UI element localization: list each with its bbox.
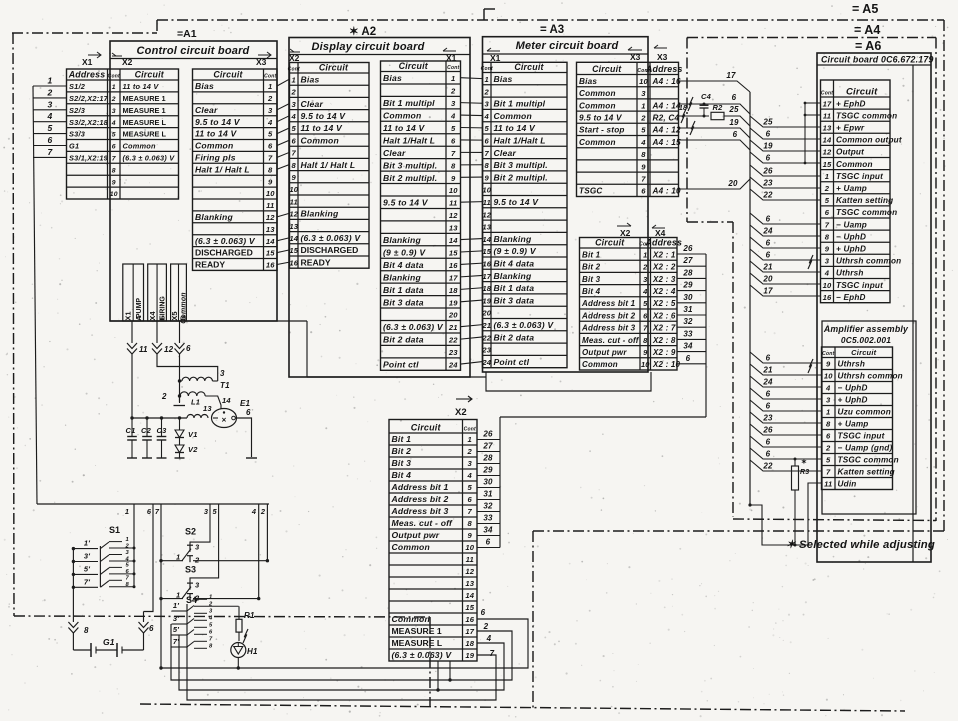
- svg-text:R3: R3: [800, 469, 809, 476]
- svg-text:5: 5: [451, 124, 456, 133]
- svg-text:18: 18: [465, 639, 474, 648]
- svg-text:6: 6: [643, 311, 648, 320]
- wire 6 (A4:14): [679, 93, 751, 114]
- svg-text:8: 8: [485, 161, 490, 170]
- svg-text:7: 7: [268, 154, 273, 163]
- svg-text:Output pwr: Output pwr: [582, 348, 627, 357]
- svg-text:17: 17: [823, 99, 832, 108]
- svg-text:4: 4: [450, 112, 456, 121]
- svg-text:2: 2: [260, 507, 266, 516]
- control board title: [137, 45, 250, 57]
- svg-text:1: 1: [641, 101, 645, 110]
- connector X1 label: [82, 52, 101, 67]
- svg-text:9: 9: [292, 173, 297, 182]
- cable loop below meter board: [486, 372, 651, 391]
- svg-text:6: 6: [733, 130, 738, 139]
- svg-text:10: 10: [449, 186, 458, 195]
- svg-text:11: 11: [483, 198, 491, 207]
- svg-text:6: 6: [766, 450, 771, 459]
- svg-text:13: 13: [482, 223, 491, 232]
- svg-text:Bit 2: Bit 2: [392, 446, 412, 456]
- svg-text:✶: ✶: [801, 458, 807, 466]
- svg-text:+ Epwr: + Epwr: [836, 124, 865, 133]
- control circuit board A1 outline: [110, 41, 277, 321]
- svg-text:Address bit 3: Address bit 3: [581, 324, 636, 333]
- wire control board bottom bus: [110, 320, 307, 322]
- svg-text:14: 14: [465, 591, 474, 600]
- svg-text:Bit 3 data: Bit 3 data: [383, 297, 424, 307]
- wire 19 (A4:12): [679, 118, 751, 138]
- svg-text:6: 6: [481, 608, 486, 617]
- svg-text:Udin: Udin: [838, 480, 857, 489]
- svg-text:5: 5: [485, 124, 490, 133]
- svg-text:6: 6: [126, 569, 130, 575]
- svg-text:Address: Address: [68, 70, 106, 80]
- svg-text:Uthrsh: Uthrsh: [836, 269, 864, 278]
- svg-text:Circuit: Circuit: [514, 62, 544, 72]
- svg-text:23: 23: [762, 414, 773, 423]
- svg-text:3: 3: [643, 275, 648, 284]
- svg-text:10: 10: [110, 191, 118, 198]
- svg-text:2: 2: [208, 602, 213, 608]
- svg-text:4: 4: [825, 384, 831, 393]
- svg-text:Uthrsh: Uthrsh: [838, 360, 866, 369]
- svg-text:9: 9: [485, 173, 490, 182]
- svg-text:Uthrsh common: Uthrsh common: [836, 257, 901, 266]
- svg-text:Address bit 3: Address bit 3: [391, 506, 449, 516]
- svg-text:X3: X3: [657, 52, 668, 62]
- svg-text:TSGC input: TSGC input: [838, 432, 885, 441]
- svg-text:= A3: = A3: [540, 24, 564, 36]
- display connector X1 label: [443, 48, 457, 63]
- connector X3 label: [256, 52, 271, 67]
- svg-text:34: 34: [683, 342, 693, 351]
- svg-text:FIRING: FIRING: [160, 296, 167, 320]
- svg-text:X2 : 6: X2 : 6: [652, 311, 676, 320]
- svg-text:Circuit: Circuit: [851, 348, 876, 357]
- svg-text:6: 6: [766, 251, 771, 260]
- svg-text:S2: S2: [185, 527, 196, 537]
- svg-text:3: 3: [48, 99, 53, 109]
- svg-text:Bias: Bias: [579, 77, 597, 86]
- svg-text:Common: Common: [301, 135, 339, 145]
- svg-text:1: 1: [485, 75, 489, 84]
- svg-text:7: 7: [112, 156, 117, 163]
- svg-text:S3: S3: [185, 565, 196, 575]
- svg-text:TSGC common: TSGC common: [838, 456, 899, 465]
- amplifier assembly outline: [822, 321, 916, 514]
- svg-text:(6.3 ± 0.063) V: (6.3 ± 0.063) V: [494, 320, 555, 330]
- svg-text:Common: Common: [579, 101, 616, 110]
- connector X2 label (bottom): [455, 396, 472, 418]
- svg-text:3: 3: [641, 89, 646, 98]
- svg-text:Cont: Cont: [264, 74, 276, 80]
- svg-text:5′: 5′: [84, 564, 91, 573]
- svg-text:Cont: Cont: [288, 67, 300, 73]
- circuit board A6 outline: [817, 53, 931, 562]
- svg-text:6: 6: [766, 215, 771, 224]
- winding tap 2 with chassis bar: [161, 392, 185, 406]
- connector X2 label (meter X2/X4 table): [617, 223, 631, 238]
- svg-text:Output: Output: [836, 148, 864, 157]
- inner dash-dot frame bottom right: [533, 531, 947, 711]
- svg-text:27: 27: [482, 441, 493, 450]
- svg-text:= A6: = A6: [855, 39, 881, 53]
- svg-text:9.5 to 14 V: 9.5 to 14 V: [195, 117, 241, 127]
- svg-text:0C5.002.001: 0C5.002.001: [841, 335, 891, 345]
- svg-text:21: 21: [762, 263, 773, 272]
- cable chevron 12: [152, 321, 218, 381]
- svg-text:Blanking: Blanking: [494, 234, 532, 244]
- svg-text:22: 22: [448, 336, 458, 345]
- svg-text:19: 19: [482, 296, 491, 305]
- svg-text:12: 12: [465, 567, 474, 576]
- display circuit board A2 outline: [289, 38, 470, 378]
- svg-text:Bit 4: Bit 4: [582, 287, 601, 296]
- svg-text:Display circuit board: Display circuit board: [311, 41, 424, 53]
- svg-text:6: 6: [48, 135, 53, 145]
- svg-text:2: 2: [125, 543, 130, 549]
- svg-text:2: 2: [483, 622, 489, 631]
- svg-text:15: 15: [482, 247, 491, 256]
- svg-text:T1: T1: [220, 381, 230, 390]
- svg-text:Common: Common: [836, 160, 873, 169]
- svg-text:=A1: =A1: [177, 28, 197, 40]
- svg-text:11 to 14 V: 11 to 14 V: [195, 129, 238, 139]
- svg-text:MEASURE 1: MEASURE 1: [392, 626, 442, 636]
- svg-text:R2, C4: R2, C4: [653, 114, 680, 123]
- svg-text:10: 10: [482, 186, 491, 195]
- svg-text:MEASURE 1: MEASURE 1: [123, 94, 166, 103]
- svg-text:X2: X2: [122, 57, 133, 67]
- svg-text:11 to 14 V: 11 to 14 V: [123, 82, 160, 91]
- svg-text:13: 13: [266, 225, 275, 234]
- svg-text:(6.3 ± 0.063) V: (6.3 ± 0.063) V: [301, 233, 362, 243]
- svg-text:8: 8: [643, 336, 648, 345]
- svg-text:X2 : 8: X2 : 8: [652, 336, 676, 345]
- svg-text:16: 16: [465, 615, 474, 624]
- meter circuit board A3 outline: [483, 37, 649, 372]
- svg-text:5: 5: [268, 130, 273, 139]
- wire riser 4: [257, 504, 260, 600]
- svg-text:22: 22: [481, 333, 491, 342]
- svg-text:4: 4: [208, 616, 213, 622]
- svg-text:S2/2,X2:17: S2/2,X2:17: [69, 94, 109, 103]
- svg-text:Bit 3: Bit 3: [582, 275, 601, 284]
- svg-text:7: 7: [643, 324, 648, 333]
- svg-text:Bit 3 data: Bit 3 data: [494, 295, 535, 305]
- cable chevron 8: [68, 587, 89, 650]
- svg-text:3: 3: [209, 609, 213, 615]
- svg-text:12: 12: [482, 210, 491, 219]
- svg-text:6: 6: [147, 507, 152, 516]
- svg-text:26: 26: [762, 426, 773, 435]
- control board X1/X2 connector table: [67, 69, 179, 199]
- cable bus 26-34,6 to A6 area: [477, 417, 706, 548]
- svg-text:30: 30: [483, 477, 493, 486]
- svg-text:1: 1: [125, 507, 129, 516]
- svg-text:3: 3: [204, 507, 209, 516]
- svg-text:11: 11: [824, 480, 832, 489]
- svg-text:TSGC: TSGC: [579, 187, 603, 196]
- svg-text:2: 2: [267, 94, 273, 103]
- svg-text:X2: X2: [455, 407, 467, 418]
- svg-text:15: 15: [289, 246, 298, 255]
- svg-text:12: 12: [266, 213, 275, 222]
- svg-text:Bit 4: Bit 4: [392, 470, 412, 480]
- svg-text:3: 3: [468, 459, 473, 468]
- display board X2 connector table: [288, 63, 369, 269]
- svg-text:S2/3: S2/3: [69, 106, 86, 115]
- svg-text:33: 33: [483, 513, 493, 522]
- svg-text:(6.3 ± 0.063) V: (6.3 ± 0.063) V: [383, 322, 444, 332]
- A6 connector table: [821, 80, 902, 303]
- svg-text:6: 6: [486, 537, 491, 546]
- svg-text:17: 17: [465, 627, 474, 636]
- svg-text:3: 3: [268, 106, 273, 115]
- connector X4 (B FIRING): [148, 264, 167, 321]
- svg-text:Bit 1 data: Bit 1 data: [383, 285, 424, 295]
- svg-text:Clear: Clear: [195, 105, 218, 115]
- svg-text:33: 33: [683, 329, 693, 338]
- svg-text:15: 15: [823, 160, 832, 169]
- svg-text:Bias: Bias: [494, 74, 513, 84]
- svg-text:6: 6: [112, 144, 116, 151]
- svg-text:X4: X4: [148, 311, 157, 321]
- capacitor C3: [157, 418, 168, 458]
- svg-text:18: 18: [482, 284, 491, 293]
- svg-text:X2 : 7: X2 : 7: [652, 324, 676, 333]
- connector X5 (B Common): [170, 264, 187, 324]
- svg-text:Meas. cut - off: Meas. cut - off: [582, 336, 640, 345]
- svg-text:1: 1: [292, 75, 296, 84]
- svg-text:Control circuit board: Control circuit board: [137, 45, 250, 57]
- wire riser 7: [159, 504, 162, 670]
- svg-text:13: 13: [203, 404, 212, 413]
- svg-text:4: 4: [642, 287, 647, 296]
- X1 harness stubs 1-7 and bus wire: [33, 76, 67, 505]
- svg-text:8: 8: [84, 626, 89, 635]
- svg-text:X2: X2: [620, 228, 631, 238]
- svg-text:Bit 2: Bit 2: [582, 263, 601, 272]
- svg-text:Bit 2 multipl.: Bit 2 multipl.: [383, 173, 437, 183]
- svg-text:24: 24: [481, 358, 491, 367]
- svg-text:7: 7: [155, 507, 160, 516]
- connector X4 label (meter X2/X4 table): [652, 225, 666, 238]
- svg-text:6: 6: [766, 354, 771, 363]
- wire E1 pin 6: [236, 418, 258, 458]
- svg-text:Circuit: Circuit: [319, 63, 349, 73]
- svg-text:10: 10: [641, 360, 650, 369]
- svg-text:Halt 1/Halt L: Halt 1/Halt L: [494, 136, 546, 146]
- external connector X3 label: [654, 45, 668, 62]
- svg-text:15: 15: [266, 249, 275, 258]
- svg-text:9.5 to 14 V: 9.5 to 14 V: [494, 197, 540, 207]
- svg-text:E1: E1: [240, 399, 251, 408]
- svg-text:3′: 3′: [84, 552, 91, 561]
- svg-text:MEASURE L: MEASURE L: [123, 130, 167, 139]
- svg-text:A4 : 15: A4 : 15: [652, 138, 681, 147]
- svg-text:4: 4: [125, 556, 130, 562]
- cable chevron 6 (battery): [139, 504, 155, 650]
- svg-text:Bias: Bias: [301, 74, 320, 84]
- svg-text:X2 : 5: X2 : 5: [652, 299, 676, 308]
- svg-text:4: 4: [47, 111, 53, 121]
- svg-text:5: 5: [48, 123, 53, 133]
- transformer T1: [178, 369, 230, 390]
- svg-text:8: 8: [292, 161, 297, 170]
- svg-text:10: 10: [266, 189, 275, 198]
- svg-text:9.5 to 14 V: 9.5 to 14 V: [579, 114, 623, 123]
- svg-text:4: 4: [486, 634, 492, 643]
- svg-text:19: 19: [449, 298, 458, 307]
- svg-text:5: 5: [825, 196, 830, 205]
- svg-text:Bit 2 multipl.: Bit 2 multipl.: [494, 172, 548, 182]
- svg-text:− Uamp: − Uamp: [836, 220, 867, 229]
- svg-text:5: 5: [126, 563, 130, 569]
- svg-text:23: 23: [448, 348, 458, 357]
- svg-text:H1: H1: [247, 647, 258, 656]
- wire 20 (A4:10): [679, 179, 751, 189]
- svg-text:X2 : 9: X2 : 9: [652, 348, 676, 357]
- svg-text:− UphD: − UphD: [838, 384, 868, 393]
- svg-text:6: 6: [209, 630, 213, 636]
- svg-text:A4 : 14: A4 : 14: [652, 101, 681, 110]
- svg-text:TSGC input: TSGC input: [836, 281, 883, 290]
- svg-text:Circuit board 0C6.672.179: Circuit board 0C6.672.179: [821, 55, 934, 65]
- wire 6 (A4:15): [679, 130, 751, 150]
- svg-text:X2 : 3: X2 : 3: [652, 275, 676, 284]
- svg-text:2: 2: [450, 87, 456, 96]
- wires from bus to A6 connector: [750, 116, 821, 296]
- svg-text:6: 6: [766, 402, 771, 411]
- wires from bus to amplifier: [750, 352, 822, 471]
- svg-text:MEASURE L: MEASURE L: [123, 118, 167, 127]
- svg-text:− UphD: − UphD: [836, 232, 866, 241]
- svg-text:1′: 1′: [173, 601, 180, 610]
- svg-text:14: 14: [449, 236, 458, 245]
- svg-text:Address bit 2: Address bit 2: [391, 494, 449, 504]
- svg-text:Bit 1 multipl: Bit 1 multipl: [383, 98, 435, 108]
- svg-text:8: 8: [451, 161, 456, 170]
- svg-text:7: 7: [485, 149, 490, 158]
- svg-text:10: 10: [824, 372, 833, 381]
- svg-text:29: 29: [682, 281, 693, 290]
- svg-text:Common: Common: [582, 360, 618, 369]
- svg-text:= A4: = A4: [854, 23, 880, 37]
- svg-text:S1/2: S1/2: [69, 82, 86, 91]
- svg-text:X2 : 2: X2 : 2: [652, 263, 676, 272]
- svg-text:READY: READY: [195, 260, 225, 270]
- svg-text:6: 6: [292, 136, 297, 145]
- svg-text:1: 1: [126, 537, 129, 543]
- svg-text:Cont: Cont: [821, 91, 833, 97]
- svg-text:✶ Selected while adjusting: ✶ Selected while adjusting: [786, 539, 935, 551]
- svg-text:Cont: Cont: [108, 74, 120, 80]
- svg-text:5′: 5′: [173, 625, 180, 634]
- wire riser 2: [266, 504, 269, 562]
- svg-text:8: 8: [268, 165, 273, 174]
- svg-text:2: 2: [824, 184, 830, 193]
- svg-text:11: 11: [466, 555, 474, 564]
- svg-text:Katten setting: Katten setting: [836, 196, 893, 205]
- svg-text:21: 21: [481, 321, 491, 330]
- cable chevron 6: [175, 321, 192, 402]
- switch S2: [161, 504, 267, 565]
- svg-text:Blanking: Blanking: [301, 209, 339, 219]
- svg-text:1′: 1′: [84, 539, 91, 548]
- svg-text:6: 6: [246, 408, 251, 417]
- svg-text:6: 6: [766, 239, 771, 248]
- svg-text:2: 2: [111, 96, 116, 103]
- svg-text:6: 6: [686, 354, 691, 363]
- svg-text:3: 3: [825, 257, 830, 266]
- svg-text:7: 7: [451, 149, 456, 158]
- label =A3: [540, 24, 564, 36]
- svg-text:X2 : 4: X2 : 4: [652, 287, 676, 296]
- svg-text:9: 9: [468, 531, 473, 540]
- svg-text:Output pwr: Output pwr: [392, 530, 440, 540]
- svg-text:9.5 to 14 V: 9.5 to 14 V: [301, 111, 347, 121]
- svg-text:19: 19: [763, 142, 773, 151]
- svg-text:11: 11: [290, 197, 298, 206]
- svg-text:Meas. cut - off: Meas. cut - off: [392, 518, 454, 528]
- svg-text:Bit 1 multipl: Bit 1 multipl: [494, 99, 546, 109]
- svg-text:Bias: Bias: [383, 73, 402, 83]
- svg-text:(9 ± 0.9) V: (9 ± 0.9) V: [383, 247, 426, 257]
- svg-text:19: 19: [465, 651, 474, 660]
- svg-text:21: 21: [762, 366, 773, 375]
- svg-text:L1: L1: [191, 398, 200, 407]
- svg-text:X2: X2: [289, 53, 300, 63]
- svg-text:1: 1: [112, 84, 116, 91]
- svg-text:24: 24: [762, 227, 773, 236]
- svg-text:14: 14: [482, 235, 491, 244]
- svg-text:Common: Common: [383, 111, 421, 121]
- svg-text:5: 5: [643, 299, 648, 308]
- svg-text:5: 5: [212, 507, 217, 516]
- label =A4: [854, 23, 880, 37]
- svg-text:Start - stop: Start - stop: [579, 126, 625, 135]
- svg-text:7: 7: [48, 147, 54, 157]
- svg-text:(9 ± 0.9) V: (9 ± 0.9) V: [494, 246, 537, 256]
- wire bus W (to board A6): [749, 92, 751, 505]
- svg-text:2: 2: [825, 444, 831, 453]
- svg-text:6: 6: [825, 208, 830, 217]
- svg-text:Uthrsh common: Uthrsh common: [838, 372, 903, 381]
- svg-text:TSGC common: TSGC common: [836, 111, 897, 120]
- svg-text:16: 16: [289, 258, 298, 267]
- svg-text:7: 7: [468, 507, 473, 516]
- svg-text:7′: 7′: [173, 637, 180, 646]
- measure wire loop 6/2/4/7: [161, 608, 528, 700]
- svg-text:= A5: = A5: [852, 2, 878, 16]
- svg-text:3: 3: [485, 100, 490, 109]
- meter board X2/X4 connector table: [580, 238, 683, 371]
- svg-text:Bit 1 data: Bit 1 data: [494, 283, 535, 293]
- svg-text:9: 9: [641, 162, 646, 171]
- svg-text:MEASURE 1: MEASURE 1: [123, 106, 166, 115]
- svg-text:8: 8: [209, 644, 213, 650]
- svg-text:7: 7: [825, 220, 830, 229]
- switch S4: [172, 595, 239, 650]
- svg-text:Blanking: Blanking: [195, 212, 233, 222]
- cable chevron 11: [127, 321, 148, 418]
- svg-text:Common: Common: [579, 89, 616, 98]
- A6 board title: [821, 55, 934, 65]
- svg-text:READY: READY: [301, 257, 331, 267]
- svg-text:7′: 7′: [84, 577, 91, 586]
